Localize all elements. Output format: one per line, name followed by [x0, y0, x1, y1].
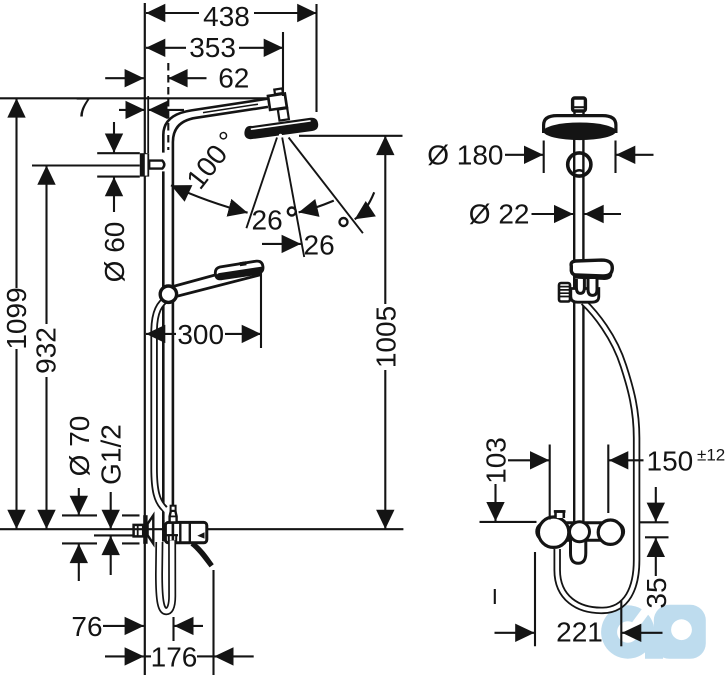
dim G1/2 [94, 534, 133, 536]
valve handle lever [191, 542, 214, 568]
arm inner highlight line [203, 104, 258, 112]
arm end box tab [274, 88, 283, 94]
wall line [144, 3, 146, 675]
top datum line [0, 97, 270, 99]
svg-text:932: 932 [31, 327, 62, 374]
dim 7 [119, 109, 145, 111]
dim 221 [534, 552, 536, 646]
svg-text:Ø 180: Ø 180 [427, 139, 503, 170]
svg-text:26: 26 [252, 205, 283, 236]
arc at middle ray [299, 201, 334, 213]
valve right escutcheon [598, 520, 622, 544]
hose (side view) [557, 302, 636, 610]
spray ray middle [282, 138, 304, 258]
valve center union [570, 522, 590, 542]
holder body [571, 289, 599, 303]
shower head (left view) [244, 118, 318, 140]
valve escutcheon cone [143, 515, 147, 544]
ext line 438 right [315, 4, 317, 112]
svg-text:G1/2: G1/2 [96, 424, 127, 485]
valve handle (side) [571, 535, 586, 563]
knurled knob [559, 283, 570, 302]
ext line 353 right [282, 32, 284, 96]
dim 62 [105, 77, 144, 79]
bracket collar gap [160, 153, 167, 172]
100 degree arc [171, 185, 248, 212]
tick at 221 tail [494, 589, 496, 604]
center line [0, 528, 403, 530]
svg-text:Ø 70: Ø 70 [64, 416, 95, 477]
svg-text:7: 7 [75, 91, 91, 122]
wall bracket [140, 153, 149, 176]
valve top stub [170, 511, 177, 523]
spray ray right [289, 138, 363, 234]
dim Ø60 [97, 152, 140, 154]
ball joint ring [568, 153, 591, 176]
diverter knob top [556, 512, 564, 518]
spray ray left [246, 138, 277, 229]
valve nipple G1/2 [134, 525, 144, 537]
dim 150 ±12 [549, 445, 551, 520]
arm end box [268, 94, 287, 110]
riser pipe inner edge [173, 107, 268, 541]
hose lower loop [159, 541, 172, 612]
valve body [165, 522, 206, 542]
stub knob [171, 506, 176, 511]
svg-text:35: 35 [641, 577, 672, 608]
dim 1099 [15, 98, 17, 288]
head spray band [543, 123, 616, 141]
valve body capsule (side) [537, 523, 624, 541]
holder fork left prong [576, 279, 584, 293]
svg-text:Ø 60: Ø 60 [99, 222, 130, 283]
head dome (side view) [544, 116, 616, 133]
svg-text:Ø 22: Ø 22 [469, 199, 530, 230]
svg-text:103: 103 [481, 437, 512, 484]
dim 438 [146, 12, 199, 14]
pipe over valve body [162, 520, 165, 542]
wall offset line (7mm) [147, 96, 149, 153]
dim 176 [212, 570, 214, 675]
watermark logo "cd" [601, 599, 706, 659]
dim 76 [172, 617, 174, 641]
svg-text:221: 221 [556, 616, 603, 647]
hand shower in holder (side) [571, 260, 612, 276]
holder fork right prong [588, 279, 597, 295]
svg-text:62: 62 [218, 63, 249, 94]
svg-text:353: 353 [189, 32, 236, 63]
dim Ø70 [62, 514, 97, 516]
head connector [278, 108, 289, 121]
svg-text:150: 150 [647, 446, 694, 477]
ext line pipe axis (62) dashed [167, 63, 169, 150]
svg-text:1005: 1005 [370, 306, 401, 368]
top knob [573, 98, 586, 111]
riser pipe (side) [573, 139, 575, 523]
dim 35 [640, 521, 669, 523]
svg-text:100 °: 100 ° [180, 126, 244, 195]
dim Ø180 [543, 141, 545, 174]
svg-text:±12: ±12 [697, 446, 725, 465]
svg-text:76: 76 [71, 611, 102, 642]
bracket pin [149, 161, 164, 169]
svg-text:1099: 1099 [1, 287, 32, 349]
hand shower handle [173, 263, 260, 296]
knob stem [575, 111, 584, 116]
dim 103 [508, 459, 532, 461]
svg-text:26: 26 [304, 230, 335, 261]
dim 353 [146, 47, 186, 49]
dim 300 [260, 267, 262, 348]
valve left escutcheon [538, 517, 568, 547]
dim Ø22 [532, 213, 574, 215]
slider pivot [160, 286, 176, 302]
svg-text:176: 176 [151, 641, 198, 672]
hand shower head (left view) [215, 261, 263, 279]
dim 1005 [299, 135, 403, 137]
932 datum line [32, 164, 140, 166]
hose upper run [154, 298, 168, 510]
arc at right ray [355, 192, 375, 219]
svg-text:438: 438 [203, 1, 250, 32]
svg-text:300: 300 [177, 319, 224, 350]
dim 932 [45, 166, 47, 325]
arrow to middle ray lower [262, 243, 301, 245]
riser pipe outer edge [163, 98, 269, 541]
